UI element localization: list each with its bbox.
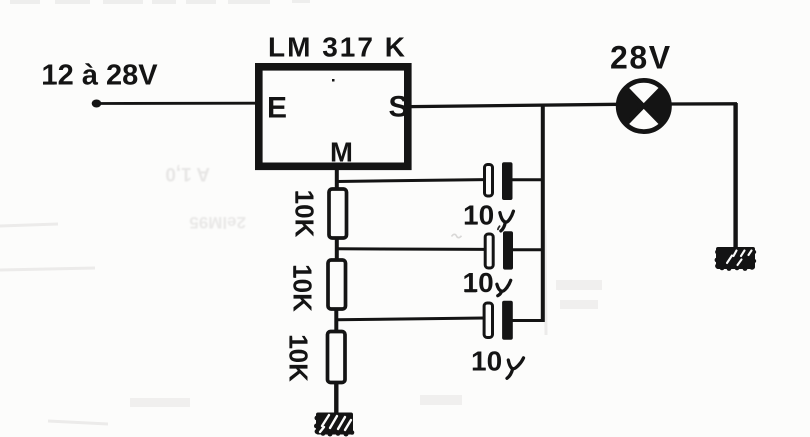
svg-text:S: S xyxy=(389,91,409,124)
svg-text:10K: 10K xyxy=(290,190,320,238)
svg-text:E: E xyxy=(267,92,287,125)
svg-text:10: 10 xyxy=(463,267,494,298)
svg-text:28V: 28V xyxy=(610,40,672,76)
svg-text:LM 317 K: LM 317 K xyxy=(268,32,407,63)
svg-text:12 à 28V: 12 à 28V xyxy=(42,60,159,92)
svg-text:M: M xyxy=(330,137,353,168)
svg-text:2elM95: 2elM95 xyxy=(189,213,246,232)
svg-text:10K: 10K xyxy=(287,264,317,312)
svg-text:A 1,0: A 1,0 xyxy=(165,163,210,184)
svg-text:10: 10 xyxy=(471,345,502,376)
svg-text:10K: 10K xyxy=(284,334,314,382)
svg-text:10: 10 xyxy=(463,200,494,231)
